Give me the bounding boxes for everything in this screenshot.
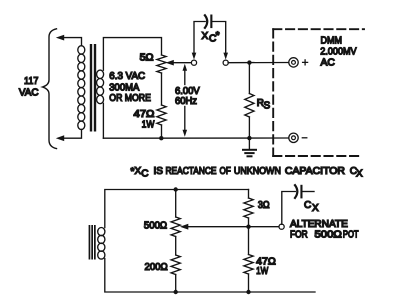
brace for 117 VAC	[43, 29, 57, 149]
arrow down to right node	[223, 53, 228, 60]
wire junction to open node	[249, 226, 280, 228]
wire 47Ω to bottom	[161, 125, 163, 138]
wire right node to RS junction and DMM +	[228, 62, 289, 64]
ground	[248, 138, 250, 150]
junction top of 500Ω column	[174, 187, 178, 191]
svg-text:CAPACITOR: CAPACITOR	[285, 166, 345, 177]
svg-text:300MA: 300MA	[109, 82, 139, 93]
svg-text:UNKNOWN: UNKNOWN	[234, 166, 281, 177]
svg-text:500Ω: 500Ω	[315, 230, 343, 241]
wire RS to bottom rail	[248, 117, 250, 138]
svg-text:2.000MV: 2.000MV	[320, 47, 357, 58]
junction bottom of 47Ω column	[246, 290, 250, 294]
svg-text:*: *	[216, 31, 220, 42]
svg-text:C: C	[304, 200, 311, 211]
wire junction to RS	[248, 63, 250, 94]
svg-text:X: X	[356, 168, 363, 179]
wire bottom rail of top circuit	[103, 137, 288, 139]
junction between 3Ω and 47Ω	[246, 225, 250, 229]
resistor 3Ω	[244, 198, 253, 218]
wiper arrow of 500Ω pot	[187, 226, 249, 228]
node alternate terminal (open circle)	[279, 224, 284, 229]
resistor RS	[245, 94, 254, 118]
terminal + (DMM)	[289, 58, 298, 67]
transformer T1 secondary winding	[97, 70, 104, 104]
wire junction to 47Ω	[248, 227, 250, 255]
junction at ground	[247, 136, 251, 140]
potentiometer 5Ω	[157, 55, 166, 73]
arrow down to left node	[192, 53, 197, 60]
resistor 200Ω	[171, 255, 180, 275]
svg-text:47Ω: 47Ω	[134, 109, 155, 120]
svg-text:REACTANCE: REACTANCE	[166, 166, 217, 177]
wire 47Ω to bottom rail	[248, 274, 250, 292]
junction above RS	[247, 60, 251, 64]
svg-text:500Ω: 500Ω	[144, 221, 168, 232]
svg-text:6.3 VAC: 6.3 VAC	[109, 71, 145, 82]
wire 3Ω to junction	[248, 218, 250, 227]
transformer T1 core	[90, 44, 92, 132]
svg-text:VAC: VAC	[19, 88, 39, 99]
svg-text:C: C	[141, 168, 148, 179]
resistor 47Ω 1W (bottom)	[244, 255, 253, 275]
wire 200Ω to bottom rail	[175, 275, 177, 293]
wire primary bottom lead with arrow	[62, 129, 82, 138]
potentiometer 500Ω	[171, 217, 180, 237]
junction at 47Ω bottom	[159, 136, 163, 140]
svg-text:3Ω: 3Ω	[258, 200, 270, 211]
transformer T2 winding	[98, 228, 105, 260]
node left terminal (open circle)	[191, 60, 196, 65]
svg-text:ALTERNATE: ALTERNATE	[290, 219, 348, 230]
svg-text:IS: IS	[154, 166, 164, 177]
node right terminal (open circle)	[223, 60, 228, 65]
DMM dashed box	[273, 28, 364, 30]
arrow 6.00V 60Hz (double headed)	[184, 69, 186, 85]
wire primary top lead with arrow	[62, 38, 82, 46]
capacitor XC (top)	[194, 22, 205, 56]
wire T2 top lead	[105, 190, 249, 228]
junction bottom of 500Ω column	[174, 290, 178, 294]
wire T2 bottom lead	[105, 259, 315, 292]
svg-text:1W: 1W	[256, 266, 269, 277]
wire top rail to 3Ω	[248, 190, 250, 199]
svg-text:60Hz: 60Hz	[175, 96, 197, 107]
svg-text:FOR: FOR	[290, 230, 308, 241]
wire secondary top lead	[103, 38, 161, 71]
terminal - (DMM)	[289, 133, 298, 142]
svg-text:X: X	[312, 203, 319, 214]
wire 500Ω to 200Ω	[175, 237, 177, 256]
transformer T2 core	[89, 225, 91, 260]
svg-text:AC: AC	[321, 58, 335, 69]
svg-text:1W: 1W	[142, 120, 155, 131]
svg-text:5Ω: 5Ω	[140, 53, 155, 64]
wiper arrow of 5Ω pot	[172, 62, 192, 64]
svg-text:X: X	[202, 31, 209, 42]
wire top rail to 500Ω pot	[175, 190, 177, 218]
resistor 47Ω 1W	[157, 105, 166, 125]
svg-text:OF: OF	[220, 166, 231, 177]
svg-text:POT: POT	[343, 230, 359, 241]
svg-text:S: S	[264, 100, 271, 111]
transformer T1 primary winding	[78, 46, 85, 130]
wire pot to 47Ω	[161, 73, 163, 105]
svg-text:DMM: DMM	[321, 35, 343, 46]
svg-text:200Ω: 200Ω	[145, 262, 169, 273]
svg-text:117: 117	[24, 76, 39, 87]
wire secondary bottom lead	[102, 103, 104, 138]
svg-text:OR MORE: OR MORE	[109, 93, 151, 104]
capacitor CX (unknown, bottom)	[282, 192, 296, 225]
